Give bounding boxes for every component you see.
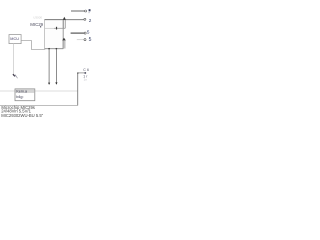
port arrow A1 shaft [63,20,65,29]
background [0,0,96,120]
pin label 1 [89,9,91,11]
port arrow A2 shaft [63,40,65,48]
svg-text:C6: C6 [83,68,90,72]
right rail horizontal [78,72,85,74]
chassis ground hatch 3 [16,76,18,78]
svg-text:5: 5 [87,30,90,35]
note junction mark [84,72,86,74]
sheet top edge wire to pin 2 [45,19,85,21]
sheet divider [45,27,54,29]
legend header fill [15,89,34,93]
wire net1 top [71,10,85,12]
svg-text:2: 2 [89,18,92,23]
terminal circle pin3 [84,32,86,34]
wire GND1 down [48,49,50,83]
svg-text:b4g:: b4g: [16,95,23,99]
left module box [9,35,21,44]
chassis ground [13,74,15,76]
svg-text:MIC29: MIC29 [30,22,43,27]
svg-text:5: 5 [89,37,92,43]
legend box [15,89,35,101]
divider pin dash [56,27,57,30]
pin dot GND2 [56,48,58,50]
chassis ground hatch 2 [15,75,17,77]
rail corner dot [77,72,78,73]
wire module to ground [13,44,15,75]
terminal circle pin4 [84,39,86,41]
svg-text:1n: 1n [84,77,88,81]
wire net4 stub [77,39,84,41]
sheet box U1 [45,20,64,49]
port arrow A2 head [62,38,66,41]
bus wire lower [0,104,78,106]
sheet bottom edge [45,48,64,50]
arrow down GND2 [55,82,57,84]
svg-text:U3000: U3000 [33,15,42,19]
terminal circle pin1 [85,10,87,12]
descender dot [40,26,41,27]
svg-text:Kern.a: Kern.a [16,90,27,94]
sheet divider right part [54,27,65,29]
sheet right edge [62,20,64,49]
wire GND2 down [55,49,57,83]
arrow down GND1 [48,83,50,85]
pin dot GND1 [48,48,50,50]
bus wire upper [0,90,78,92]
port arrow A1 head [63,17,66,20]
wire from module to sheet [21,41,45,50]
svg-text:MIC29302WU-BU 5.5”: MIC29302WU-BU 5.5” [1,113,43,118]
svg-text:MCU: MCU [10,37,19,41]
wire net3 [71,32,85,34]
right rail vertical [77,73,79,106]
terminal circle pin2 [84,18,86,20]
